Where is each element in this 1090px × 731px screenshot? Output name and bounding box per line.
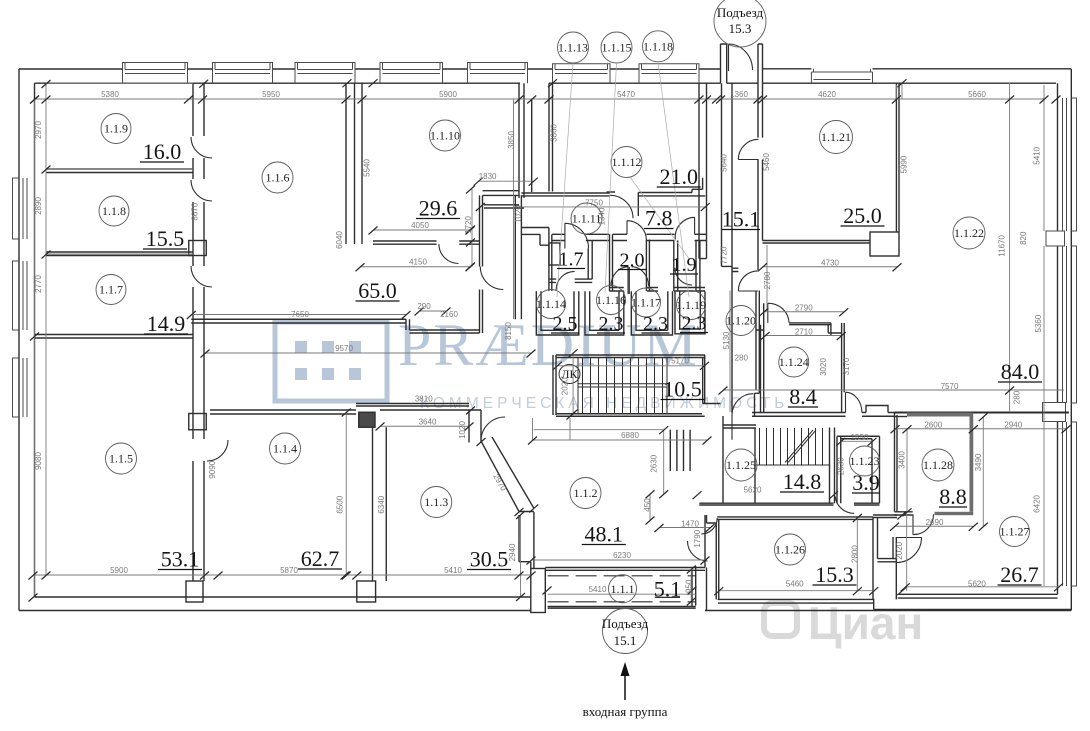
svg-text:1.1.23: 1.1.23 [850,454,880,468]
dimension texts horizontal [101,90,1023,594]
svg-text:1830: 1830 [479,172,497,181]
svg-text:3490: 3490 [974,453,983,471]
window 1.1.6 R [295,63,355,84]
svg-text:950: 950 [684,579,693,593]
svg-text:1.1.8: 1.1.8 [102,204,126,218]
3640 wall [380,409,469,411]
door 3.9 [835,496,854,513]
svg-text:6500: 6500 [336,495,345,513]
svg-text:2630: 2630 [836,457,845,475]
room 8.4 walls [789,323,842,335]
svg-text:1720: 1720 [464,216,473,234]
svg-text:2790: 2790 [795,304,813,313]
svg-text:Подъезд: Подъезд [602,616,649,631]
svg-text:6880: 6880 [621,431,639,440]
svg-text:1.1.15: 1.1.15 [602,41,632,55]
1.1.12 bottom wall [521,178,705,216]
svg-text:2.3: 2.3 [682,313,707,335]
svg-text:5460: 5460 [786,580,804,589]
door 1.1.10 [439,244,459,264]
svg-text:3850: 3850 [507,131,516,149]
svg-text:ЛК: ЛК [561,367,578,381]
lobby wall right of 8.4 [862,406,895,417]
vertical left dim line [35,85,47,597]
svg-text:5410: 5410 [589,585,607,594]
window 1.1.12 L [553,64,611,83]
svg-text:6420: 6420 [1033,494,1042,512]
left wall windows [13,178,28,239]
wall V1 (corridor wall) [193,83,204,136]
svg-text:1.1.20: 1.1.20 [726,314,756,328]
svg-text:1.1.18: 1.1.18 [643,39,673,53]
svg-text:1.1.2: 1.1.2 [574,486,598,500]
svg-text:3400: 3400 [898,451,907,469]
svg-text:16.0: 16.0 [143,139,182,164]
svg-text:7570: 7570 [941,382,959,391]
svg-text:1.1.25: 1.1.25 [726,458,756,472]
svg-text:1.1.4: 1.1.4 [273,442,297,456]
svg-text:5460: 5460 [762,153,771,171]
1.1.4 top wall [210,410,356,414]
1.1.6 | 1.1.10 wall [346,83,362,244]
svg-text:Циан: Циан [808,597,923,649]
door 1.1.7 [191,266,212,287]
svg-text:2.5: 2.5 [553,313,578,335]
corridor 15.1 right wall = 1.1.21 left [758,83,763,137]
top windows [13,63,1077,587]
svg-text:6040: 6040 [335,231,344,249]
corridor 1.1.20 walls [722,83,733,412]
svg-text:2940: 2940 [508,543,517,561]
svg-text:входная группа: входная группа [583,704,668,719]
svg-text:21.0: 21.0 [660,164,699,189]
door 29.6 right [480,267,503,290]
door 8.4 top [768,303,789,323]
dimension texts vertical (rotated) [34,121,1043,593]
svg-text:1550: 1550 [851,433,869,442]
svg-text:1020: 1020 [514,205,523,223]
outer left wall [19,69,35,611]
svg-text:8.8: 8.8 [939,484,967,509]
30.5 diagonal wall [469,410,481,443]
svg-text:5380: 5380 [101,90,119,99]
svg-text:5870: 5870 [280,566,298,575]
svg-text:280: 280 [735,354,749,363]
svg-text:15.5: 15.5 [146,226,185,251]
bottom dim line [33,574,531,576]
15.3 top-left walls / vestibule right [716,519,719,599]
outer right wall [1058,69,1072,611]
entrance arrow [583,662,668,719]
svg-text:8.4: 8.4 [789,384,817,409]
svg-text:2800: 2800 [850,545,859,563]
svg-text:5620: 5620 [968,580,986,589]
svg-text:6340: 6340 [377,495,386,513]
svg-text:1.1.1: 1.1.1 [611,582,635,596]
svg-text:1.1.13: 1.1.13 [558,41,588,55]
svg-text:5470: 5470 [617,90,635,99]
svg-text:5360: 5360 [1034,314,1043,332]
svg-text:2.3: 2.3 [599,313,624,335]
svg-text:65.0: 65.0 [358,278,397,303]
svg-text:1.1.6: 1.1.6 [266,171,290,185]
svg-text:84.0: 84.0 [1001,359,1040,384]
svg-text:1.1.21: 1.1.21 [821,130,851,144]
leader lines [557,62,690,297]
svg-text:1.1.28: 1.1.28 [923,458,953,472]
8.8 room walls [895,413,898,512]
WC doors [556,271,575,290]
svg-text:1.1.22: 1.1.22 [954,226,984,240]
svg-text:5130: 5130 [722,331,731,349]
svg-text:1470: 1470 [681,519,699,528]
interior dims [478,180,533,182]
door 2.0 [627,221,646,240]
svg-text:4620: 4620 [818,90,836,99]
svg-text:3860: 3860 [550,124,559,142]
svg-text:29.6: 29.6 [419,196,458,221]
svg-text:1.1.14: 1.1.14 [536,297,566,311]
svg-text:4150: 4150 [409,258,427,267]
svg-text:5900: 5900 [439,90,457,99]
1.1.10 bottom wall w/ door gap [373,241,480,244]
vestibule dashed canopy [548,575,696,577]
svg-text:1.1.10: 1.1.10 [430,129,460,143]
1.1.4 | 1.1.3 wall [373,427,387,581]
underlines [140,162,1042,597]
corridor/pier between 15.3 and 8.8 [873,515,897,518]
stairs lobby door jambs [670,430,690,471]
WC jamb walls [588,241,592,280]
svg-text:2630: 2630 [649,454,658,472]
svg-text:1.1.17: 1.1.17 [631,296,661,310]
svg-text:14.8: 14.8 [783,469,822,494]
door 15.3 [701,518,717,534]
1.1.12 right wall / corridor 15.1 [699,83,707,258]
svg-text:2710: 2710 [795,328,813,337]
svg-text:820: 820 [1019,231,1028,245]
svg-text:9570: 9570 [335,344,353,353]
65.0 bottom wall [191,319,479,333]
svg-text:53.1: 53.1 [161,547,200,572]
svg-text:280: 280 [1013,390,1022,404]
right wall windows [1063,98,1077,231]
svg-text:14.9: 14.9 [147,311,186,336]
svg-text:1.7: 1.7 [559,249,584,271]
window 1.1.6 L [213,63,273,84]
svg-text:1.1.26: 1.1.26 [775,543,805,557]
top dim line [35,98,1045,100]
1.1.21 bottom wall [763,241,871,244]
WC block left walls [521,228,549,235]
svg-text:3020: 3020 [819,358,828,376]
door near 30.5 top [481,417,505,441]
WC boxes [536,291,579,335]
svg-text:2.3: 2.3 [643,313,668,335]
watermark logo PRAEDIUM [275,312,923,649]
svg-text:3810: 3810 [415,395,433,404]
svg-text:1790: 1790 [693,529,702,547]
door 8.8 [913,514,934,534]
svg-text:7650: 7650 [291,310,309,319]
svg-text:1.1.11: 1.1.11 [572,212,602,226]
door 1.1.5 [207,440,228,461]
svg-text:5900: 5900 [110,566,128,575]
svg-text:1.1.16: 1.1.16 [596,293,626,307]
svg-text:4730: 4730 [821,259,839,268]
door 1.1.9 [191,137,212,158]
window 1.1.12 R [639,64,699,83]
svg-text:8670: 8670 [191,202,200,220]
window 1.1.10 R [468,63,528,84]
svg-text:48.1: 48.1 [585,522,624,547]
1.1.10 bottom block [483,191,520,196]
svg-text:4050: 4050 [411,221,429,230]
door 1.1.8 [191,180,212,201]
svg-text:1020: 1020 [458,421,467,439]
svg-text:5410: 5410 [444,566,462,575]
door 1.1.21 [738,139,758,159]
stairs 2 + 3.9 walls [723,425,756,428]
svg-text:5620: 5620 [744,486,762,495]
svg-text:1.1.27: 1.1.27 [1000,525,1030,539]
svg-text:1.1.3: 1.1.3 [424,495,448,509]
door 1.9 [675,217,694,239]
1.1.10 right wall [519,83,524,198]
svg-text:1.1.12: 1.1.12 [612,155,642,169]
svg-text:1.1.9: 1.1.9 [104,122,128,136]
svg-text:1.9: 1.9 [672,254,697,276]
svg-text:2.0: 2.0 [620,250,645,272]
svg-text:15.1: 15.1 [614,633,637,648]
svg-text:290: 290 [417,302,431,311]
svg-text:2890: 2890 [34,197,43,215]
interior walls [35,44,1070,613]
svg-text:2160: 2160 [440,310,458,319]
svg-text:8150: 8150 [504,322,513,340]
svg-text:5950: 5950 [262,90,280,99]
door 1.1.12 [610,195,633,218]
65.0 right wall pair [515,195,521,319]
1.1.12 left wall [549,83,553,191]
window 1.1.10 L [380,63,443,84]
svg-text:11670: 11670 [998,235,1007,257]
svg-text:2600: 2600 [924,421,942,430]
misc extension lines [896,83,1044,413]
svg-text:10.5: 10.5 [663,377,702,402]
window 1.1.21 [811,69,872,83]
svg-text:7.8: 7.8 [645,206,673,231]
piers on V1 [189,241,207,256]
svg-text:1.1.19: 1.1.19 [676,298,706,312]
svg-text:9080: 9080 [34,452,43,470]
svg-text:5410: 5410 [1033,146,1042,164]
svg-text:5170: 5170 [671,357,689,366]
svg-text:1.1.7: 1.1.7 [99,283,123,297]
svg-text:3.9: 3.9 [852,470,880,495]
svg-text:5990: 5990 [900,155,909,173]
svg-text:1360: 1360 [730,90,748,99]
stairs 1 block [556,355,705,358]
outer top wall [19,68,721,70]
svg-text:26.7: 26.7 [1000,562,1039,587]
lobby/WC divider shelves [549,279,556,282]
svg-text:1.1.5: 1.1.5 [109,452,133,466]
svg-text:2940: 2940 [1004,421,1022,430]
door 48.1 [688,541,708,561]
svg-text:450: 450 [643,498,652,512]
svg-text:7720: 7720 [719,246,728,264]
window 1.1.9 [123,63,188,84]
svg-text:Подъезд: Подъезд [717,5,764,20]
1.1.21 right wall + pier [896,83,899,232]
svg-text:5640: 5640 [720,154,729,172]
door 1.1.27 [897,538,922,563]
door stair lobby [732,394,753,440]
entrance bay jambs [721,44,727,83]
svg-text:15.3: 15.3 [815,562,854,587]
stair treads 1 [559,358,667,414]
door entrance 15.3 [729,44,753,71]
door box corridor to 65.0 [549,243,560,265]
svg-text:25.0: 25.0 [843,203,882,228]
svg-text:5660: 5660 [968,90,986,99]
corridor bottom walls near 48.1 [704,515,706,568]
door 1.7 [565,223,589,248]
svg-text:15.3: 15.3 [729,21,752,36]
svg-text:2690: 2690 [926,518,944,527]
svg-text:30.5: 30.5 [470,547,509,572]
svg-text:2020: 2020 [895,541,904,559]
stair treads 2 [755,428,830,465]
vestibule 1.1.1 [545,568,705,571]
door 8.4 bottom [846,392,862,412]
svg-text:2970: 2970 [34,121,43,139]
door corr 1.1.20 [738,271,758,291]
svg-text:6230: 6230 [613,551,631,560]
vestibule top walls [552,234,565,240]
svg-text:3640: 3640 [419,417,437,426]
svg-text:9090: 9090 [208,460,217,478]
svg-text:2770: 2770 [34,275,43,293]
tick marks [29,79,1071,605]
outer bottom wall [19,597,531,611]
svg-text:3170: 3170 [842,357,851,375]
svg-text:1.1.24: 1.1.24 [779,355,809,369]
svg-text:5540: 5540 [363,159,372,177]
svg-text:62.7: 62.7 [301,546,340,571]
svg-text:15.1: 15.1 [722,207,761,232]
svg-text:2780: 2780 [763,271,772,289]
left rooms dividers [46,169,193,173]
